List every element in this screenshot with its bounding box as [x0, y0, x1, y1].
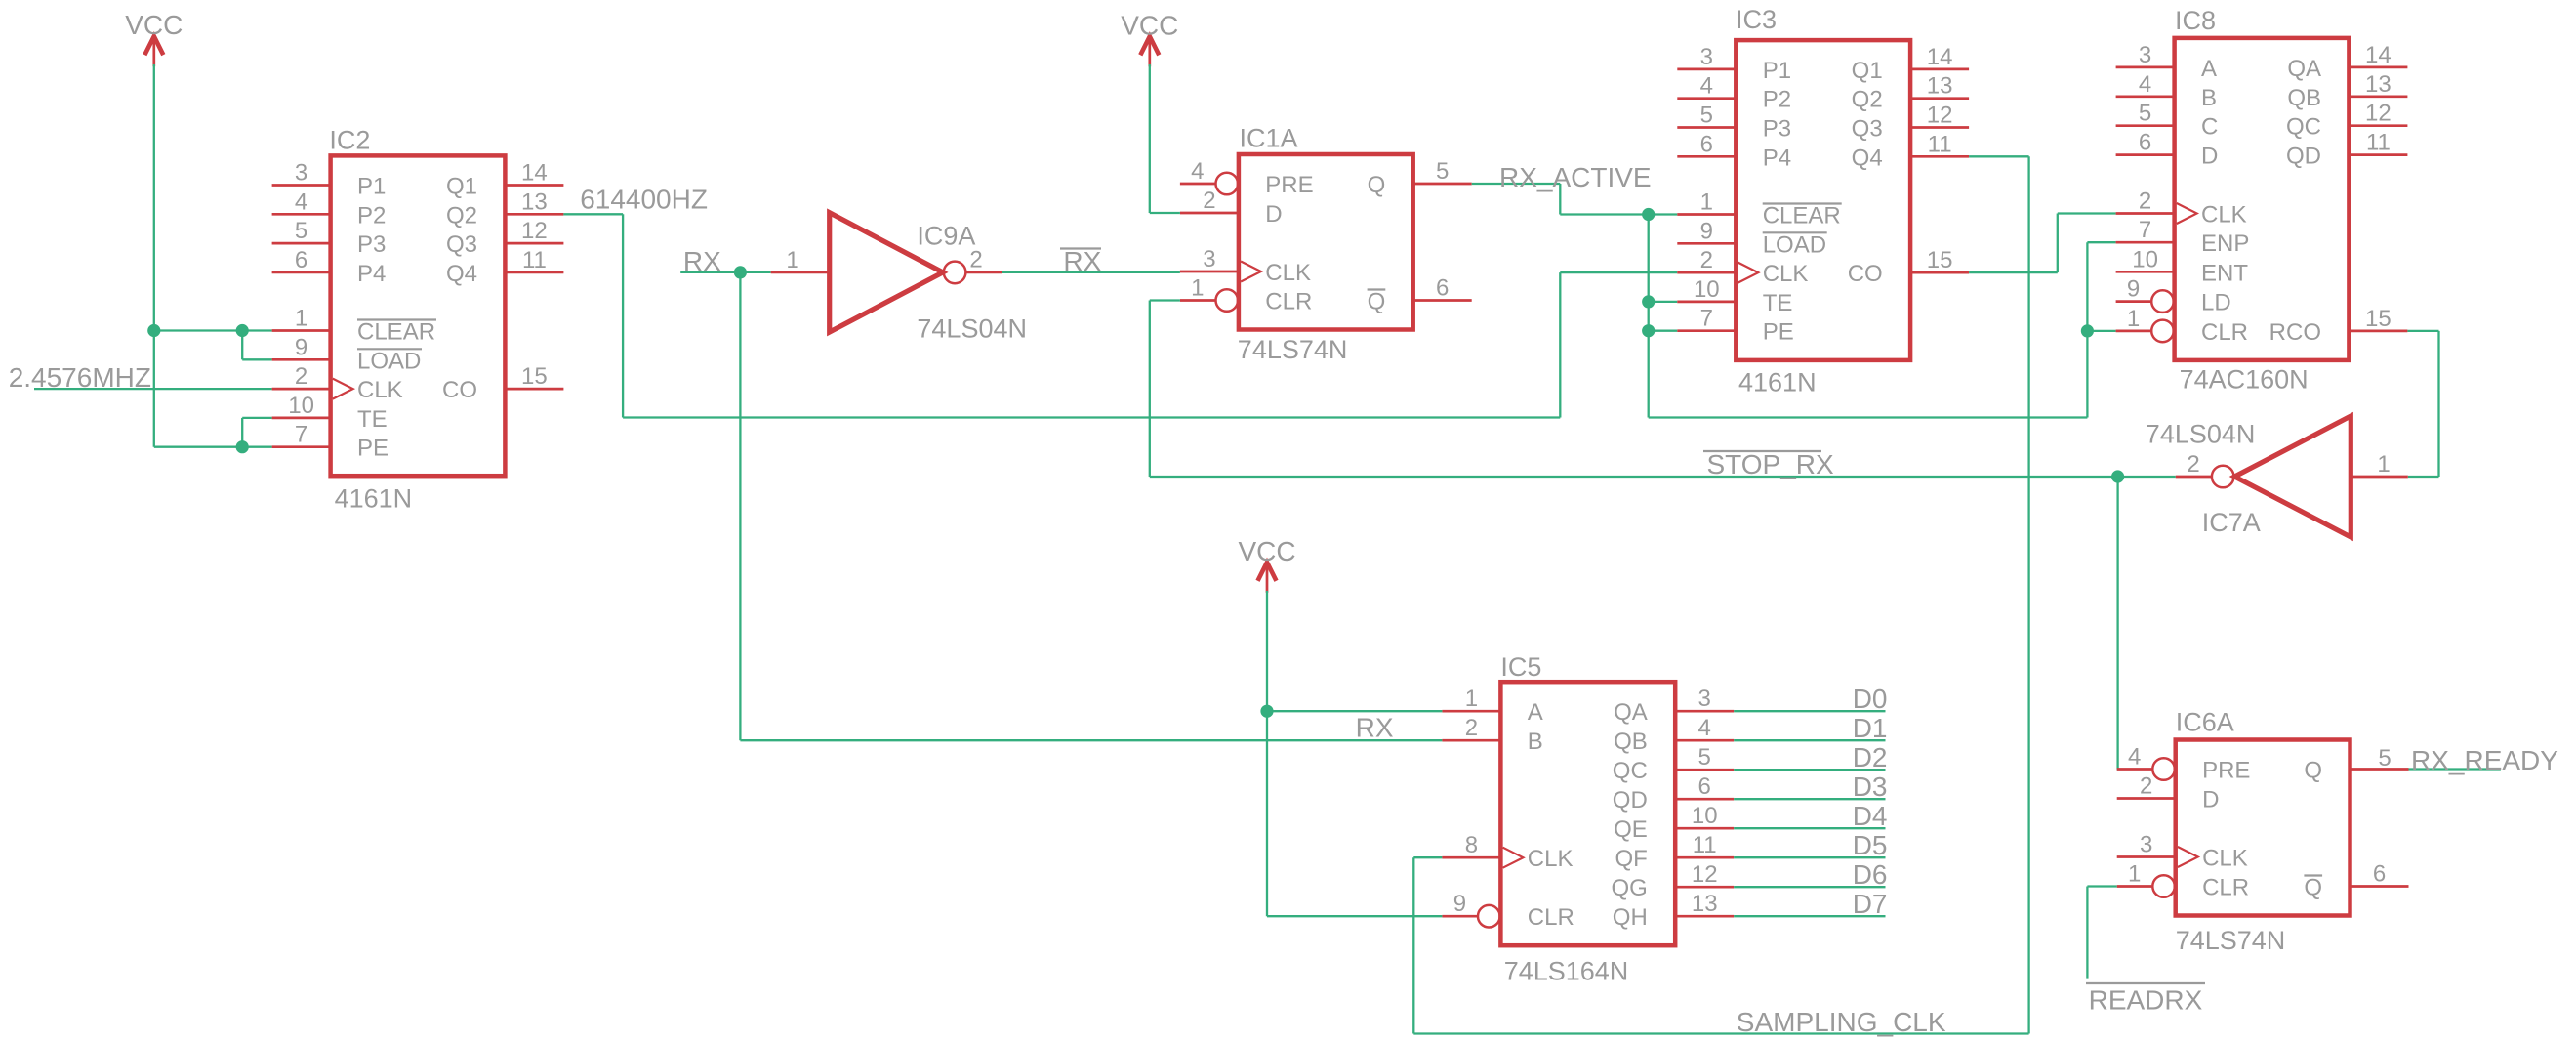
svg-text:Q3: Q3	[446, 231, 477, 258]
svg-text:15: 15	[521, 363, 548, 390]
svg-text:11: 11	[522, 247, 547, 273]
svg-text:RX: RX	[1356, 713, 1394, 743]
svg-text:LOAD: LOAD	[357, 348, 421, 374]
svg-text:7: 7	[1700, 306, 1713, 332]
svg-text:CLEAR: CLEAR	[1763, 203, 1841, 229]
svg-text:PE: PE	[1763, 319, 1794, 346]
svg-text:D1: D1	[1853, 713, 1888, 743]
svg-text:QA: QA	[2287, 56, 2321, 82]
svg-text:2: 2	[1700, 247, 1713, 273]
svg-text:5: 5	[1700, 103, 1713, 129]
svg-text:13: 13	[1927, 73, 1953, 100]
svg-text:D: D	[2202, 787, 2219, 813]
svg-text:D3: D3	[1853, 771, 1888, 802]
svg-text:QB: QB	[2287, 85, 2321, 111]
svg-text:3: 3	[1698, 686, 1711, 712]
svg-text:1: 1	[1700, 189, 1713, 216]
svg-text:4161N: 4161N	[1738, 368, 1817, 397]
svg-text:1: 1	[1191, 275, 1204, 302]
svg-text:2.4576MHZ: 2.4576MHZ	[9, 362, 151, 393]
svg-text:IC9A: IC9A	[917, 222, 975, 251]
svg-text:11: 11	[1693, 832, 1717, 858]
svg-text:CLEAR: CLEAR	[357, 319, 435, 346]
svg-text:QA: QA	[1614, 699, 1648, 726]
svg-text:74LS164N: 74LS164N	[1504, 957, 1629, 986]
svg-text:P4: P4	[1763, 145, 1791, 171]
svg-text:RX: RX	[1063, 246, 1101, 276]
svg-text:ENT: ENT	[2201, 260, 2248, 286]
svg-text:2: 2	[2139, 188, 2151, 215]
svg-text:5: 5	[295, 218, 307, 244]
svg-text:14: 14	[2365, 42, 2392, 68]
svg-text:3: 3	[2140, 832, 2152, 858]
svg-text:P3: P3	[1763, 116, 1791, 143]
svg-text:6: 6	[295, 247, 307, 273]
svg-text:A: A	[1528, 699, 1543, 726]
svg-text:D: D	[2201, 144, 2218, 170]
svg-text:D7: D7	[1853, 889, 1888, 919]
svg-text:4: 4	[2139, 71, 2151, 98]
svg-text:VCC: VCC	[1121, 10, 1178, 40]
svg-text:4: 4	[2128, 744, 2141, 771]
svg-text:12: 12	[521, 218, 548, 244]
svg-text:4161N: 4161N	[335, 484, 413, 514]
svg-text:4: 4	[295, 188, 307, 215]
svg-text:CLR: CLR	[2201, 319, 2248, 346]
svg-text:9: 9	[1700, 218, 1713, 244]
svg-text:D2: D2	[1853, 742, 1888, 772]
svg-text:QG: QG	[1611, 875, 1647, 901]
svg-text:D0: D0	[1853, 684, 1888, 714]
svg-text:ENP: ENP	[2201, 230, 2249, 257]
svg-text:B: B	[1528, 729, 1543, 755]
svg-text:4: 4	[1191, 158, 1204, 185]
svg-text:LD: LD	[2201, 290, 2231, 316]
svg-text:QB: QB	[1614, 729, 1648, 755]
svg-text:A: A	[2201, 56, 2217, 82]
svg-text:Q4: Q4	[446, 261, 477, 287]
svg-text:5: 5	[2139, 101, 2151, 127]
svg-text:7: 7	[2139, 217, 2151, 243]
svg-text:PE: PE	[357, 436, 388, 462]
svg-text:6: 6	[1698, 773, 1711, 800]
svg-text:QC: QC	[1613, 758, 1648, 784]
svg-text:CLR: CLR	[1528, 904, 1574, 931]
svg-text:Q: Q	[1368, 172, 1386, 198]
svg-text:6: 6	[1436, 275, 1449, 302]
svg-text:VCC: VCC	[125, 10, 183, 40]
svg-text:QD: QD	[1613, 787, 1648, 813]
svg-text:CLK: CLK	[1528, 846, 1574, 872]
svg-text:IC2: IC2	[329, 125, 370, 154]
svg-text:10: 10	[2132, 246, 2158, 272]
svg-text:74LS04N: 74LS04N	[2146, 420, 2256, 449]
svg-text:CLK: CLK	[2202, 846, 2248, 872]
svg-text:RX_READY: RX_READY	[2411, 745, 2558, 775]
svg-text:VCC: VCC	[1238, 536, 1295, 566]
svg-text:IC8: IC8	[2175, 6, 2216, 35]
svg-text:9: 9	[1453, 891, 1466, 917]
svg-text:CLK: CLK	[1265, 260, 1311, 286]
svg-text:IC7A: IC7A	[2202, 508, 2261, 537]
svg-text:13: 13	[521, 188, 548, 215]
svg-text:QC: QC	[2286, 114, 2321, 141]
svg-text:3: 3	[295, 160, 307, 187]
svg-text:SAMPLING_CLK: SAMPLING_CLK	[1737, 1007, 1946, 1037]
svg-text:2: 2	[1465, 715, 1478, 741]
svg-text:RX_ACTIVE: RX_ACTIVE	[1499, 162, 1652, 192]
svg-text:4: 4	[1698, 715, 1711, 741]
svg-text:CLK: CLK	[357, 377, 403, 403]
svg-text:Q1: Q1	[1852, 58, 1883, 84]
svg-text:QH: QH	[1613, 904, 1648, 931]
svg-text:CLR: CLR	[2202, 875, 2249, 901]
svg-text:10: 10	[1694, 276, 1720, 303]
svg-text:P3: P3	[357, 231, 386, 258]
svg-text:TE: TE	[357, 406, 388, 433]
svg-text:74LS74N: 74LS74N	[1238, 335, 1348, 364]
svg-text:13: 13	[2365, 71, 2392, 98]
svg-text:Q: Q	[1368, 289, 1386, 315]
svg-text:3: 3	[2139, 42, 2151, 68]
svg-text:10: 10	[288, 393, 314, 419]
svg-text:2: 2	[1203, 188, 1215, 214]
svg-text:2: 2	[295, 363, 307, 390]
svg-text:P4: P4	[357, 261, 386, 287]
svg-text:5: 5	[1436, 158, 1449, 185]
svg-text:B: B	[2201, 85, 2217, 111]
svg-text:PRE: PRE	[2202, 758, 2250, 784]
svg-text:PRE: PRE	[1265, 172, 1313, 198]
svg-text:12: 12	[1692, 861, 1718, 888]
svg-text:READRX: READRX	[2089, 985, 2203, 1016]
svg-text:D6: D6	[1853, 859, 1888, 890]
svg-text:1: 1	[786, 247, 798, 273]
svg-text:Q2: Q2	[446, 202, 477, 229]
svg-text:Q2: Q2	[1852, 87, 1883, 113]
svg-text:1: 1	[2127, 306, 2140, 332]
svg-text:5: 5	[1698, 744, 1711, 771]
svg-text:CLR: CLR	[1265, 289, 1312, 315]
svg-text:IC6A: IC6A	[2176, 708, 2234, 737]
svg-text:12: 12	[1927, 103, 1953, 129]
svg-text:6: 6	[2373, 861, 2386, 888]
svg-text:2: 2	[2140, 773, 2152, 800]
svg-text:D5: D5	[1853, 830, 1888, 860]
svg-text:12: 12	[2365, 101, 2392, 127]
svg-text:Q: Q	[2304, 758, 2322, 784]
svg-text:RCO: RCO	[2269, 319, 2321, 346]
svg-text:LOAD: LOAD	[1763, 231, 1826, 258]
svg-text:IC1A: IC1A	[1240, 124, 1298, 153]
svg-text:3: 3	[1203, 246, 1215, 272]
svg-text:QE: QE	[1614, 816, 1648, 843]
svg-text:CO: CO	[1848, 261, 1883, 287]
svg-text:Q4: Q4	[1852, 145, 1883, 171]
svg-text:1: 1	[2377, 451, 2390, 478]
svg-text:6: 6	[1700, 131, 1713, 157]
svg-text:2: 2	[2187, 451, 2199, 478]
svg-text:IC3: IC3	[1736, 5, 1777, 34]
svg-text:15: 15	[2365, 306, 2392, 332]
svg-text:CLK: CLK	[2201, 202, 2247, 229]
svg-text:13: 13	[1692, 891, 1718, 917]
svg-text:C: C	[2201, 114, 2218, 141]
svg-text:74LS74N: 74LS74N	[2176, 926, 2286, 955]
svg-text:P1: P1	[1763, 58, 1791, 84]
svg-text:74AC160N: 74AC160N	[2180, 365, 2309, 395]
svg-text:D4: D4	[1853, 801, 1888, 831]
svg-text:P2: P2	[1763, 87, 1791, 113]
svg-text:QF: QF	[1615, 846, 1647, 872]
svg-text:P2: P2	[357, 202, 386, 229]
svg-text:IC5: IC5	[1500, 652, 1541, 682]
svg-text:CLK: CLK	[1763, 261, 1809, 287]
svg-text:4: 4	[1700, 73, 1713, 100]
svg-text:CO: CO	[442, 377, 477, 403]
svg-text:1: 1	[295, 306, 307, 332]
svg-text:Q: Q	[2304, 875, 2322, 901]
svg-text:5: 5	[2378, 745, 2391, 771]
svg-text:Q1: Q1	[446, 174, 477, 200]
svg-text:8: 8	[1465, 832, 1478, 858]
svg-text:9: 9	[2127, 276, 2140, 303]
svg-text:6: 6	[2139, 130, 2151, 156]
svg-text:RX: RX	[683, 246, 721, 276]
svg-text:Q3: Q3	[1852, 116, 1883, 143]
svg-text:11: 11	[2366, 130, 2391, 156]
svg-text:STOP_RX: STOP_RX	[1707, 449, 1835, 479]
svg-text:QD: QD	[2286, 144, 2321, 170]
svg-text:2: 2	[969, 247, 982, 273]
svg-text:1: 1	[2128, 861, 2141, 888]
svg-text:11: 11	[1928, 131, 1952, 157]
svg-text:14: 14	[1927, 44, 1953, 70]
svg-text:TE: TE	[1763, 290, 1793, 316]
svg-text:9: 9	[295, 334, 307, 360]
svg-text:3: 3	[1700, 44, 1713, 70]
svg-text:P1: P1	[357, 174, 386, 200]
svg-text:15: 15	[1927, 247, 1953, 273]
svg-text:7: 7	[295, 422, 307, 448]
svg-text:74LS04N: 74LS04N	[917, 314, 1027, 344]
svg-text:1: 1	[1465, 686, 1478, 712]
svg-text:D: D	[1265, 201, 1282, 228]
svg-text:614400HZ: 614400HZ	[580, 185, 708, 215]
svg-text:14: 14	[521, 160, 548, 187]
svg-text:10: 10	[1692, 803, 1718, 829]
